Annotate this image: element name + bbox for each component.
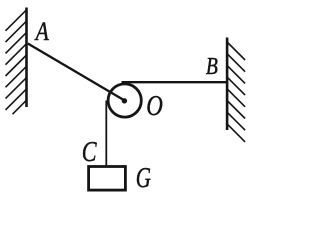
- pulley O: [108, 84, 141, 117]
- left wall: [25, 8, 28, 108]
- right wall: [226, 38, 229, 131]
- svg-text:O: O: [146, 91, 163, 122]
- pulley axle dot: [122, 98, 127, 103]
- weight block G: [89, 167, 126, 191]
- svg-text:A: A: [34, 17, 49, 46]
- right wall hatching: [227, 42, 245, 142]
- svg-text:C: C: [82, 137, 98, 168]
- left wall hatching: [6, 10, 27, 114]
- wire rope O to B (horizontal): [122, 81, 228, 83]
- wire rope O down to weight (C segment): [105, 101, 107, 167]
- wire rope A to O: [28, 44, 125, 101]
- svg-text:G: G: [136, 163, 151, 194]
- svg-text:B: B: [206, 53, 218, 80]
